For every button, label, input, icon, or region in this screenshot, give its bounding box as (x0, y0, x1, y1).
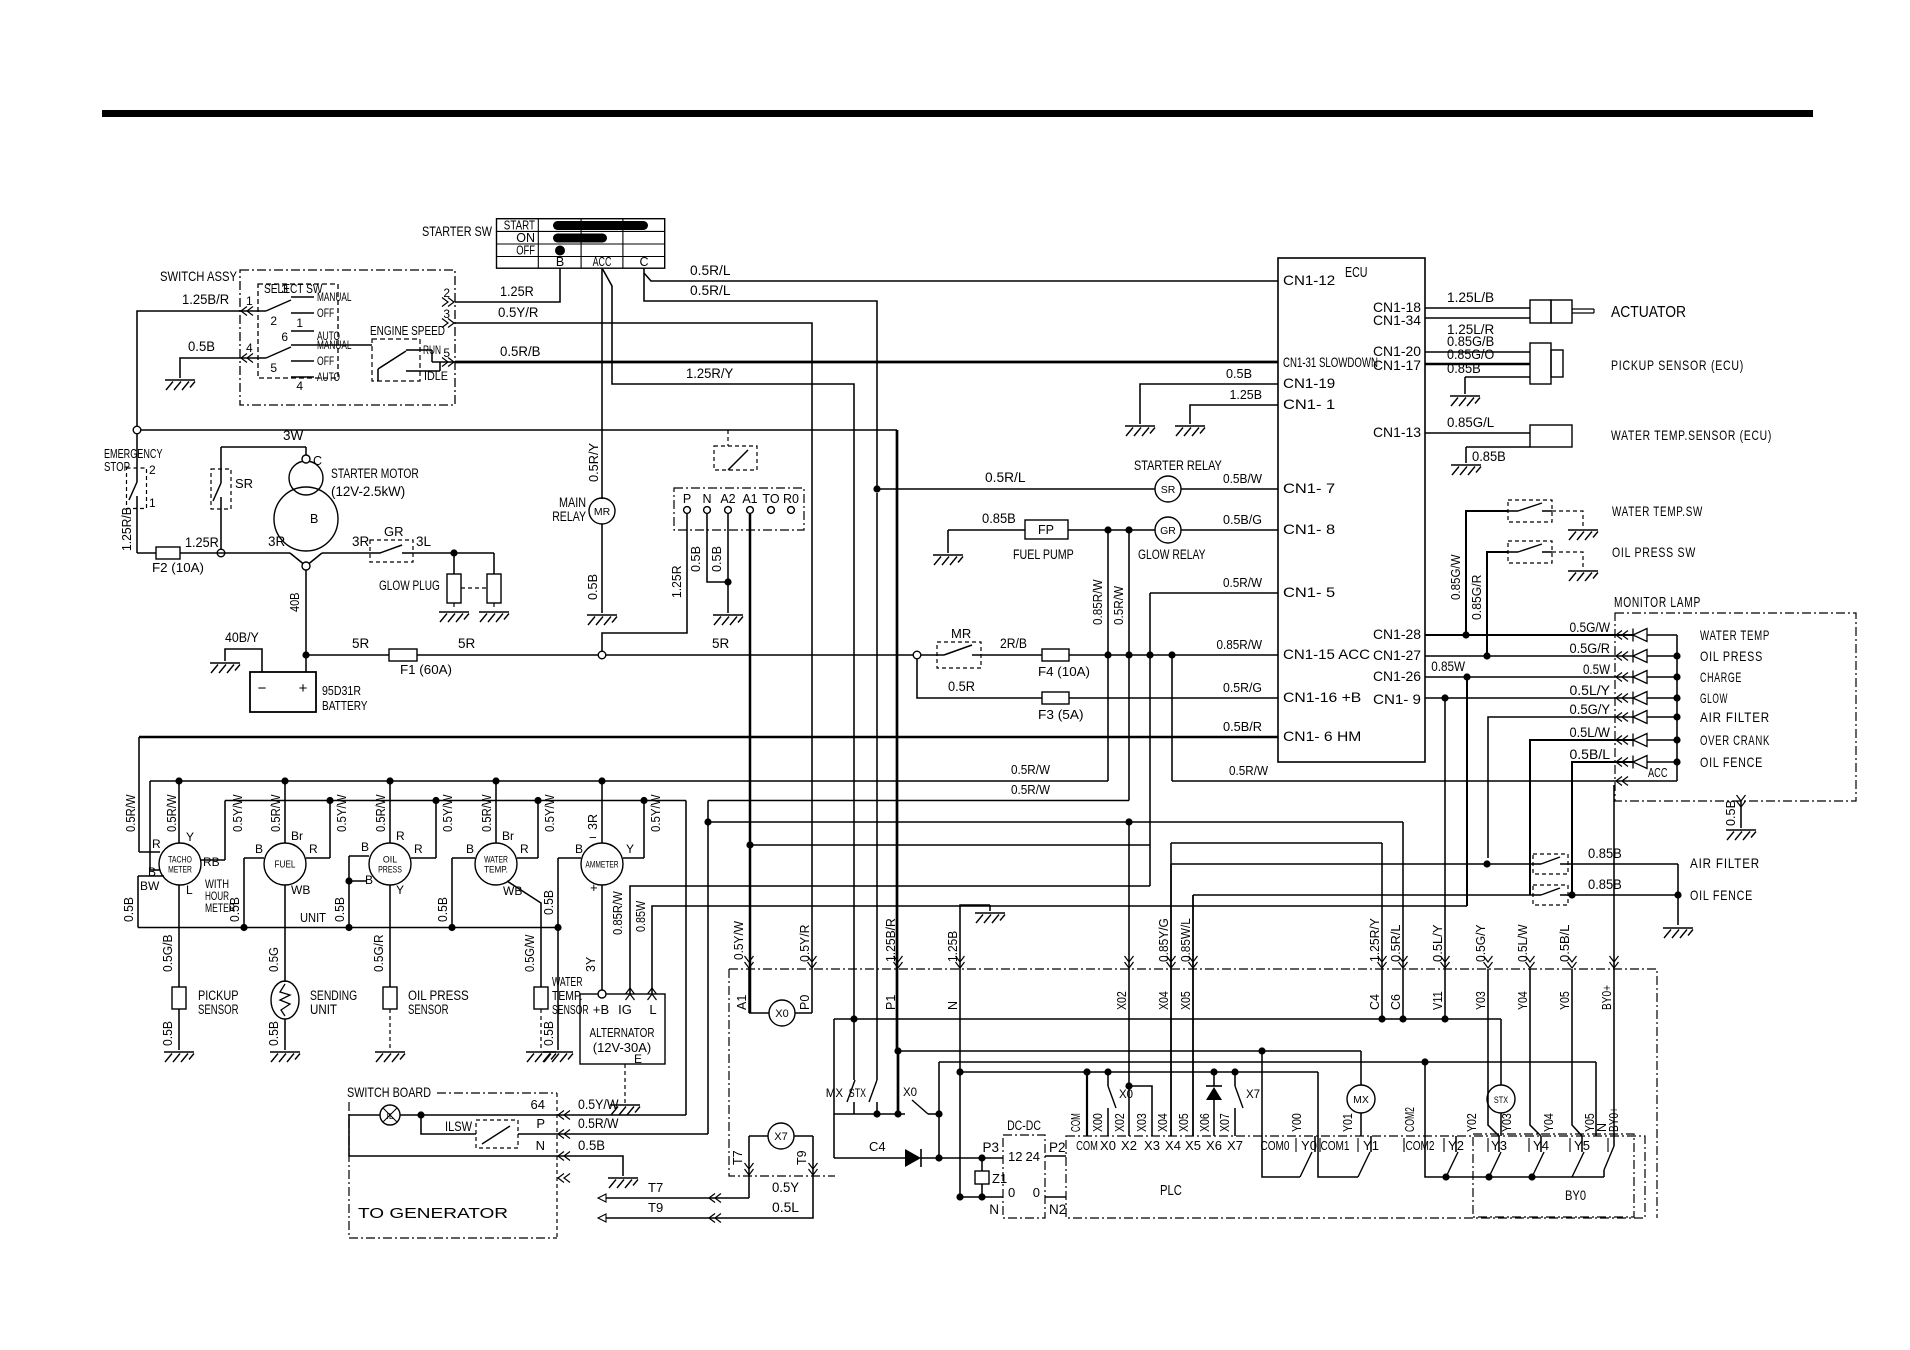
select switch pin 3 arrow (442, 307, 454, 328)
svg-text:AUTO: AUTO (317, 372, 340, 384)
svg-text:PICKUP: PICKUP (198, 988, 239, 1003)
wire 0.5R/L starter SW C to CN1-12 (644, 263, 1278, 281)
svg-text:3R: 3R (586, 814, 600, 830)
svg-text:SWITCH ASSY: SWITCH ASSY (160, 268, 238, 284)
svg-text:B: B (575, 842, 583, 856)
svg-text:BY0+: BY0+ (1600, 985, 1614, 1010)
svg-text:0.85R/W: 0.85R/W (1217, 637, 1263, 652)
wire C4 diode row (834, 1019, 1003, 1167)
svg-text:0.5B: 0.5B (228, 897, 242, 922)
svg-text:1: 1 (246, 294, 253, 308)
svg-text:0.5R: 0.5R (948, 679, 975, 694)
relay output Y4 (1532, 1136, 1544, 1177)
svg-text:0.5Y/W: 0.5Y/W (578, 1097, 619, 1112)
svg-text:ACC: ACC (1648, 765, 1668, 780)
svg-text:SENDING: SENDING (310, 988, 357, 1003)
wire C6 vertical (1402, 822, 1404, 1019)
oil press sensor ground (375, 1009, 405, 1062)
svg-text:SELECT SW: SELECT SW (264, 281, 323, 296)
svg-text:0.5R/W: 0.5R/W (165, 794, 179, 832)
svg-text:C4: C4 (1368, 994, 1382, 1010)
svg-text:WATER TEMP: WATER TEMP (1700, 627, 1770, 643)
diode into X6 (1206, 1068, 1222, 1136)
svg-text:FUEL: FUEL (275, 859, 296, 871)
svg-text:OIL FENCE: OIL FENCE (1690, 887, 1753, 903)
svg-text:0.85W: 0.85W (1431, 659, 1465, 674)
svg-text:MR: MR (594, 506, 611, 518)
svg-text:OFF: OFF (317, 356, 334, 368)
wire 0.5Y T7 to generator (602, 1136, 799, 1203)
svg-text:0.85G/R: 0.85G/R (1469, 575, 1484, 621)
svg-text:R: R (309, 842, 318, 856)
svg-text:40B/Y: 40B/Y (225, 630, 259, 645)
switch assy label (160, 268, 238, 284)
svg-text:F1 (60A): F1 (60A) (400, 662, 452, 677)
svg-text:(12V-2.5kW): (12V-2.5kW) (331, 484, 405, 499)
svg-text:0.5B: 0.5B (709, 546, 724, 572)
wire 0.5B A2 terminal to ground (709, 514, 728, 613)
svg-text:ECU: ECU (1345, 264, 1368, 281)
svg-text:C6: C6 (1389, 994, 1403, 1010)
svg-text:COM: COM (1076, 1138, 1098, 1153)
wire ACC to monitor lamps (1172, 763, 1677, 786)
svg-text:−: − (258, 680, 267, 697)
monitor lamp CHARGE (1425, 659, 1742, 685)
svg-text:TO: TO (762, 492, 779, 506)
svg-text:Br: Br (502, 829, 514, 843)
wire 0.85G/O CN1-17 (1425, 347, 1530, 364)
svg-text:COM1: COM1 (1320, 1138, 1349, 1153)
svg-text:WB: WB (503, 884, 522, 898)
svg-text:3: 3 (281, 282, 288, 296)
monitor lamp OVER CRANK (1530, 725, 1770, 895)
DC-DC converter (982, 1118, 1066, 1218)
svg-text:R: R (520, 842, 529, 856)
svg-text:2: 2 (270, 314, 277, 328)
alternator E ground wire (624, 1064, 626, 1103)
select switch contacts (240, 282, 352, 393)
svg-text:GR: GR (1160, 525, 1176, 537)
water temp gauge (436, 781, 557, 928)
wire N2 to PLC (1045, 1196, 1066, 1198)
fuse F2 (10A) (152, 535, 219, 575)
wire 0.5R/B engine speed to CN1-31 SLOWDOWN (455, 344, 1278, 362)
relay terminal box P N A2 A1 TO R0 (674, 488, 804, 530)
wire 0.5B sending unit to ground (267, 1019, 285, 1050)
svg-text:0.5R/L: 0.5R/L (985, 470, 1026, 485)
wire 0.5B unit bus (138, 910, 562, 931)
connector X0 (749, 969, 812, 1026)
actuator connector (1530, 300, 1594, 323)
svg-text:DC-DC: DC-DC (1007, 1118, 1041, 1133)
relay output Y2 (1446, 1136, 1458, 1177)
wire 0.5R/W accessory bus right (708, 655, 1129, 801)
wire 0.5B monitor lamp box to ground (1723, 795, 1746, 828)
svg-text:SR: SR (235, 476, 253, 491)
svg-text:BATTERY: BATTERY (322, 698, 368, 713)
svg-text:CN1-27: CN1-27 (1373, 647, 1421, 663)
svg-text:0.5Y/R: 0.5Y/R (498, 305, 539, 320)
svg-text:A1: A1 (735, 995, 749, 1010)
glow plug 2 (487, 553, 501, 603)
svg-text:5R: 5R (712, 636, 730, 651)
engine speed switch box (372, 339, 420, 381)
relay contact GR (glow) (370, 524, 413, 562)
wire 0.5B N terminal (688, 514, 732, 586)
wire ACC to 1.25R/Y feed (602, 268, 854, 1019)
main relay MR coil (552, 495, 615, 524)
svg-text:X07: X07 (1218, 1113, 1232, 1132)
svg-text:+B: +B (593, 1002, 609, 1017)
svg-text:0.85Y/G: 0.85Y/G (1157, 918, 1171, 962)
svg-text:X2: X2 (1121, 1138, 1137, 1153)
water temp sensor (534, 974, 589, 1017)
svg-text:X05: X05 (1177, 1113, 1191, 1132)
wire link row A (834, 1015, 1501, 1022)
wire C4 vertical (1171, 843, 1382, 1019)
svg-text:0.5L/W: 0.5L/W (1570, 725, 1611, 740)
svg-text:AIR FILTER: AIR FILTER (1700, 709, 1770, 725)
ground at fuel pump (933, 555, 963, 565)
wire 0.5G fuel gauge to sending unit (267, 885, 285, 982)
wire 1.25R/B emergency stop to fuse F2 (120, 507, 137, 553)
svg-text:0.5Y/W: 0.5Y/W (441, 794, 455, 832)
svg-text:C: C (313, 454, 322, 468)
wire X7 contact above PLC (1235, 1072, 1260, 1136)
relay output Y0 (1262, 1136, 1315, 1177)
wire 0.5G/R oil gauge to sensor (372, 885, 390, 987)
relay STX (1487, 1019, 1515, 1136)
svg-text:1.25B/R: 1.25B/R (884, 918, 898, 962)
svg-text:X0: X0 (775, 1008, 788, 1020)
glow plug link (461, 587, 487, 589)
svg-text:3Y: 3Y (584, 956, 598, 972)
monitor lamp enclosure (1614, 595, 1856, 801)
svg-text:0.5B: 0.5B (161, 1021, 175, 1046)
select switch box (258, 284, 338, 378)
svg-text:0.5B: 0.5B (188, 339, 215, 354)
svg-text:2R/B: 2R/B (1000, 636, 1027, 651)
svg-text:N: N (702, 492, 711, 506)
wire 0.5R/L branch C to starter relay (644, 273, 877, 489)
svg-text:0.5G/W: 0.5G/W (1570, 620, 1611, 635)
wire 1.25B/R select SW pin1 to node A (137, 292, 240, 426)
svg-text:CN1- 6 HM: CN1- 6 HM (1283, 728, 1361, 744)
pickup sensor label (1611, 357, 1744, 373)
svg-text:L: L (649, 1002, 656, 1017)
wire COM2 feed (1424, 1062, 1426, 1146)
svg-text:STX: STX (1494, 1095, 1509, 1106)
svg-text:3W: 3W (283, 428, 304, 443)
svg-text:Y04: Y04 (1542, 1113, 1556, 1132)
starter relay SR coil (1134, 458, 1222, 502)
svg-text:ALTERNATOR: ALTERNATOR (590, 1025, 655, 1040)
svg-text:0.5L/Y: 0.5L/Y (1431, 924, 1445, 962)
svg-text:0.5G/R: 0.5G/R (1570, 641, 1611, 656)
svg-text:R: R (396, 829, 405, 843)
svg-text:X7: X7 (1227, 1138, 1243, 1153)
svg-text:FP: FP (1038, 523, 1054, 537)
svg-text:X4: X4 (1165, 1138, 1181, 1153)
svg-text:95D31R: 95D31R (322, 683, 361, 698)
svg-text:CN1-15 ACC: CN1-15 ACC (1283, 646, 1370, 662)
PLC boundary crossings (735, 918, 1619, 1010)
wire oil fence switch row (1193, 877, 1682, 1136)
wire Y04 into Y4 (1530, 969, 1541, 1136)
ground at CN1-1 (1175, 426, 1205, 436)
svg-text:0.85G/W: 0.85G/W (1448, 554, 1463, 600)
svg-text:64: 64 (531, 1097, 545, 1112)
svg-text:COM0: COM0 (1260, 1138, 1289, 1153)
svg-text:0.5B: 0.5B (122, 897, 136, 922)
water temp sensor label (1611, 427, 1772, 443)
svg-text:X00: X00 (1091, 1113, 1105, 1132)
relay output Y1 (1318, 1136, 1371, 1177)
alternator (580, 988, 665, 1066)
svg-text:0.5L/W: 0.5L/W (1516, 924, 1530, 962)
svg-text:Y03: Y03 (1474, 991, 1488, 1010)
svg-text:B: B (148, 865, 156, 879)
ground at N wire (975, 913, 1005, 923)
svg-text:Y: Y (396, 883, 404, 897)
wire water temp switch to ground (1552, 511, 1583, 528)
svg-text:X04: X04 (1157, 991, 1171, 1010)
svg-text:GLOW: GLOW (1700, 690, 1728, 706)
svg-text:IDLE: IDLE (424, 369, 448, 383)
svg-text:B: B (466, 842, 474, 856)
svg-text:CN1- 8: CN1- 8 (1283, 521, 1335, 537)
svg-text:OIL PRESS: OIL PRESS (1700, 648, 1763, 664)
monitor lamp common wire (1676, 635, 1678, 781)
svg-text:OIL FENCE: OIL FENCE (1700, 754, 1763, 770)
svg-text:COM2: COM2 (1403, 1107, 1417, 1132)
svg-text:0.85B: 0.85B (1588, 877, 1622, 892)
wire Y05 into Y5 (1572, 969, 1582, 1136)
svg-text:STARTER SW: STARTER SW (422, 223, 493, 239)
wire link row F (749, 844, 1150, 846)
svg-text:0.5R/W: 0.5R/W (1011, 782, 1051, 797)
svg-text:CN1- 1: CN1- 1 (1283, 396, 1335, 412)
wire 40B starter B to battery (287, 570, 306, 672)
svg-text:0.5B/W: 0.5B/W (1223, 471, 1263, 486)
svg-text:GR: GR (384, 524, 404, 539)
svg-text:CN1-17: CN1-17 (1373, 357, 1421, 373)
svg-text:0.5W: 0.5W (1583, 662, 1610, 677)
svg-text:1: 1 (296, 316, 303, 330)
select switch pin 4 arrow (241, 341, 253, 363)
wire X0 contact in MX row (834, 1047, 943, 1117)
svg-text:0.5Y/W: 0.5Y/W (543, 794, 557, 832)
wire X3 feed (1129, 1086, 1152, 1136)
glow plug 1 ground (439, 603, 469, 622)
relay output Y3 (1489, 1136, 1501, 1177)
svg-text:RUN: RUN (423, 343, 441, 357)
svg-text:1.25R: 1.25R (669, 566, 684, 599)
svg-text:X03: X03 (1135, 1113, 1149, 1132)
svg-text:Y02: Y02 (1465, 1113, 1479, 1132)
svg-text:N2: N2 (1049, 1202, 1066, 1217)
svg-text:0.5Y/W: 0.5Y/W (649, 794, 663, 832)
svg-text:Y05: Y05 (1558, 991, 1572, 1010)
svg-text:MR: MR (951, 626, 971, 641)
svg-text:B: B (365, 873, 373, 887)
svg-text:X06: X06 (1198, 1113, 1212, 1132)
svg-text:Z1: Z1 (992, 1171, 1007, 1186)
svg-text:0.5G: 0.5G (267, 947, 281, 972)
svg-text:0.5R/W: 0.5R/W (578, 1116, 619, 1131)
svg-text:WB: WB (291, 883, 310, 897)
svg-text:Y04: Y04 (1516, 991, 1530, 1010)
wire 0.85W up to CN1-26 (1466, 677, 1468, 906)
svg-text:1.25R: 1.25R (185, 535, 219, 550)
zener Z1 (975, 1158, 1007, 1201)
water temp sensor ground (526, 1009, 556, 1062)
svg-text:MONITOR LAMP: MONITOR LAMP (1614, 595, 1701, 611)
svg-text:CN1-16 +B: CN1-16 +B (1283, 689, 1361, 705)
svg-text:B: B (255, 842, 263, 856)
glow plug label (379, 578, 440, 593)
wire link row E 0.5R/L (708, 818, 1403, 825)
ground at main relay (587, 615, 617, 625)
svg-text:A1: A1 (742, 492, 757, 506)
svg-text:BY0: BY0 (1565, 1187, 1586, 1203)
ground at A2 (713, 615, 743, 625)
svg-text:STARTER RELAY: STARTER RELAY (1134, 458, 1222, 473)
svg-text:AMMETER: AMMETER (585, 860, 618, 871)
svg-text:0.5G/Y: 0.5G/Y (1474, 924, 1488, 962)
monitor lamp WATER TEMP (1425, 620, 1770, 643)
svg-text:P2: P2 (1049, 1140, 1066, 1155)
wire 0.5L T9 to generator (602, 1136, 818, 1223)
svg-text:T7: T7 (648, 1180, 663, 1195)
svg-text:P: P (683, 492, 691, 506)
wire 0.5R/W gauge feed bus (150, 655, 1108, 785)
lamp switch ILSW (445, 1119, 518, 1148)
svg-text:X6: X6 (1206, 1138, 1222, 1153)
node A (133, 426, 141, 434)
svg-text:0: 0 (1033, 1185, 1040, 1200)
wire 0.5R/Y ACC to main relay (586, 268, 602, 499)
monitor lamp AIR FILTER (1488, 702, 1770, 858)
svg-text:(12V-30A): (12V-30A) (593, 1040, 652, 1055)
svg-text:Br: Br (291, 829, 303, 843)
svg-text:CN1-19: CN1-19 (1283, 375, 1335, 391)
ECU right pin labels (1373, 299, 1421, 707)
svg-text:0.5R/L: 0.5R/L (690, 283, 731, 298)
svg-text:0.5R/L: 0.5R/L (1389, 924, 1403, 962)
wire 3L GR contact to glow plugs (413, 534, 494, 557)
tachometer gauge (122, 737, 245, 928)
starter motor M1 (274, 447, 419, 570)
svg-text:CN1-13: CN1-13 (1373, 424, 1421, 440)
wire V11 vertical (1444, 700, 1446, 1019)
svg-text:+: + (299, 680, 308, 697)
svg-text:STARTER MOTOR: STARTER MOTOR (331, 466, 419, 481)
wire air filter/oil fence to ground (1677, 864, 1679, 925)
relay contact SR (starter aux) (211, 469, 253, 509)
glow plug 1 (447, 553, 461, 603)
svg-text:0.85R/W: 0.85R/W (611, 891, 625, 935)
wire 0.5B MR to ground (585, 524, 602, 613)
wire P2 to PLC (1045, 1155, 1066, 1157)
svg-text:Y01: Y01 (1341, 1113, 1355, 1132)
svg-text:40B: 40B (287, 593, 302, 613)
svg-text:0.85R/W: 0.85R/W (1090, 579, 1105, 625)
svg-text:Y03: Y03 (1500, 1113, 1514, 1132)
select switch pin 2 arrow (442, 286, 454, 307)
svg-text:OFF: OFF (317, 308, 334, 320)
svg-text:0.5Y/R: 0.5Y/R (798, 925, 812, 963)
ammeter gauge (542, 781, 663, 928)
svg-text:0.5B/L: 0.5B/L (1570, 747, 1611, 762)
wire 0.5R node to fuse F3 (917, 659, 1042, 698)
wire 0.5R/W glow relay line down (1111, 530, 1129, 655)
svg-text:CN1-12: CN1-12 (1283, 272, 1335, 288)
svg-text:1.25L/B: 1.25L/B (1447, 290, 1494, 305)
emergency stop switch (104, 446, 163, 510)
svg-text:CN1-31 SLOWDOWN: CN1-31 SLOWDOWN (1283, 354, 1378, 370)
svg-text:P1: P1 (884, 995, 898, 1010)
svg-text:ACTUATOR: ACTUATOR (1611, 304, 1686, 321)
ground at switch board N (608, 1178, 638, 1188)
wire fuel pump feed (948, 511, 1025, 553)
pickup sensor (172, 987, 239, 1017)
wire 1.25B CN1-1 to ground (1190, 387, 1278, 424)
wire 0.5B N to ground (557, 1156, 623, 1176)
wire 0.5B/W SR to CN1-7 (1181, 471, 1278, 489)
water temp switch (1508, 500, 1703, 522)
wire X0 contact above PLC (1108, 1072, 1133, 1136)
monitor lamp OIL FENCE (1570, 747, 1764, 895)
wire 0.85B pickup sensor shield to ground (1447, 361, 1530, 394)
svg-text:P0: P0 (798, 995, 812, 1010)
wire 0.5R/W ACC right bus (1171, 655, 1173, 781)
fuse F1 (60A) (389, 649, 452, 677)
relay outputs Y2-Y5 common (1425, 1146, 1604, 1181)
svg-text:CN1-34: CN1-34 (1373, 312, 1421, 328)
svg-text:0.5Y/W: 0.5Y/W (231, 794, 245, 832)
svg-text:0.5B: 0.5B (578, 1138, 605, 1153)
svg-text:SENSOR: SENSOR (198, 1002, 239, 1017)
svg-text:0.5Y/W: 0.5Y/W (731, 920, 746, 960)
svg-text:0.5L: 0.5L (772, 1200, 799, 1215)
svg-text:METER: METER (168, 865, 192, 876)
wire 0.5Y/W illumination bus (225, 797, 686, 804)
wire 0.85G/R oil press sw to CN1-27 (1469, 552, 1508, 656)
wire 0.85G/L CN1-13 (1425, 415, 1530, 433)
svg-text:CN1- 7: CN1- 7 (1283, 480, 1335, 496)
wire IL to ILSW (421, 1115, 476, 1134)
svg-text:Y: Y (626, 842, 634, 856)
wire 0V to DC-DC (956, 1193, 1003, 1200)
svg-text:0.5G/B: 0.5G/B (161, 935, 175, 973)
wire 0.85R/W alternator IG (611, 886, 1150, 994)
PLC enclosure (1066, 1136, 1645, 1218)
svg-text:ACC: ACC (593, 255, 612, 269)
svg-text:UNIT: UNIT (310, 1002, 337, 1017)
ground at alternator (610, 1105, 640, 1115)
svg-text:2: 2 (443, 286, 450, 300)
ground at water temp switch (1568, 530, 1598, 540)
svg-text:1.25R/Y: 1.25R/Y (686, 366, 733, 381)
wire 1.25L/B CN1-18 (1425, 290, 1530, 308)
svg-text:X7: X7 (1246, 1089, 1260, 1101)
wire 0.85B water temp sensor to ground (1466, 447, 1530, 464)
wire 0.5B pickup sensor to ground (161, 1009, 179, 1050)
svg-text:0.85B: 0.85B (982, 511, 1016, 526)
svg-text:UNIT: UNIT (300, 910, 326, 925)
wire 0.85G/W water temp sw to CN1-28 (1448, 511, 1508, 635)
